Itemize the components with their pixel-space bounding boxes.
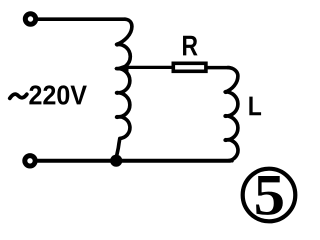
terminal bottom-left (25, 156, 35, 166)
wire top horizontal (38, 17, 126, 21)
left coil cusp blobs (115, 42, 119, 119)
label R (183, 36, 198, 56)
inductor L1 (right coil) (225, 68, 238, 161)
wire bottom horizontal (38, 159, 230, 163)
figure number 5 (256, 176, 283, 215)
tap arrow (114, 63, 129, 73)
autotransformer winding T1 (left coil) (116, 19, 131, 157)
label ~220V : tilde (10, 94, 27, 98)
junction node (110, 155, 122, 167)
wire arrow tail (126, 66, 172, 69)
wire resistor to coil (208, 66, 230, 70)
label L (249, 97, 261, 116)
label 220V (29, 85, 86, 104)
right coil cusp blobs (224, 90, 228, 142)
terminal top-left (25, 14, 35, 24)
figure number circle (243, 169, 296, 222)
resistor R1 (173, 63, 206, 71)
